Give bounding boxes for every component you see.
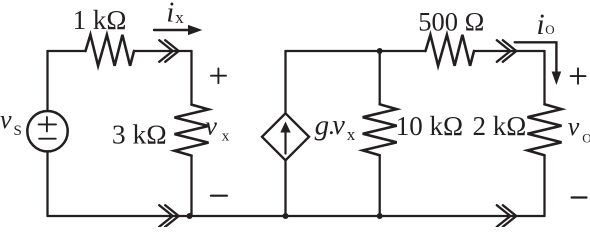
svg-text:i: i: [536, 8, 544, 41]
wire left branch lower: [46, 151, 48, 216]
svg-text:i: i: [166, 0, 174, 29]
wire dependent source branch upper: [284, 51, 286, 113]
junction dot node B (dep source bottom): [283, 213, 289, 219]
plus sign for vx: [211, 68, 226, 83]
chevron pair on bottom-left wire: [159, 205, 179, 227]
resistor R4 10 kOhm zigzag: [363, 104, 397, 155]
minus sign inside source: [39, 138, 56, 140]
svg-text:S: S: [14, 123, 22, 139]
svg-text:10 kΩ: 10 kΩ: [396, 111, 463, 141]
svg-text:g: g: [315, 109, 330, 141]
wire 3k branch lower stub: [190, 156, 192, 216]
plus sign inside source: [39, 117, 56, 131]
current arrow iO hook: [515, 42, 557, 71]
svg-text:x: x: [222, 129, 230, 145]
current arrow ix: [154, 29, 188, 31]
voltage source VS circle: [27, 111, 67, 151]
svg-text:x: x: [347, 125, 356, 144]
wire left branch upper: [46, 51, 48, 111]
minus sign for vx: [211, 195, 227, 197]
svg-text:500 Ω: 500 Ω: [418, 7, 484, 37]
resistor R1 1 kOhm zigzag: [86, 35, 135, 66]
resistor R2 3 kOhm zigzag: [175, 105, 209, 156]
svg-text:O: O: [545, 22, 554, 37]
svg-text:x: x: [175, 8, 184, 27]
wire 3k branch upper stub: [190, 51, 192, 105]
plus sign for vO: [571, 68, 586, 84]
junction dot node A (3k bottom): [187, 213, 193, 219]
wire dependent source branch lower: [284, 160, 286, 216]
wire 2k branch upper stub: [543, 51, 545, 104]
wire 10k branch lower stub: [379, 155, 381, 216]
svg-text:3 kΩ: 3 kΩ: [112, 119, 167, 150]
resistor R5 2 kOhm zigzag: [528, 104, 562, 155]
svg-text:2 kΩ: 2 kΩ: [472, 111, 526, 141]
dependent current source G1 diamond: [262, 113, 309, 160]
junction dot node C (10k bottom): [377, 213, 383, 219]
resistor R3 500 Ohm zigzag: [426, 35, 475, 66]
wire top-left segment: [48, 50, 86, 52]
wire bottom rail: [48, 215, 545, 217]
svg-text:v: v: [568, 112, 580, 141]
svg-text:v: v: [205, 111, 217, 140]
svg-text:1 kΩ: 1 kΩ: [73, 5, 127, 35]
chevron pair on top-left wire: [159, 40, 179, 62]
svg-text:O: O: [582, 131, 590, 146]
wire top-right rail right part: [474, 50, 545, 52]
chevron pair on bottom-right wire: [497, 205, 517, 227]
wire 2k branch lower stub: [543, 155, 545, 216]
svg-text:v: v: [0, 105, 12, 134]
chevron pair on top-right wire: [497, 40, 517, 62]
wire top-left to corner: [134, 50, 192, 52]
arrow inside dependent source: [284, 132, 286, 154]
svg-text:v: v: [332, 110, 345, 141]
wire 10k branch upper stub: [379, 51, 381, 104]
minus sign for vO: [572, 196, 587, 198]
wire top-right rail left part: [286, 50, 426, 52]
junction dot node D (10k top): [377, 48, 383, 54]
